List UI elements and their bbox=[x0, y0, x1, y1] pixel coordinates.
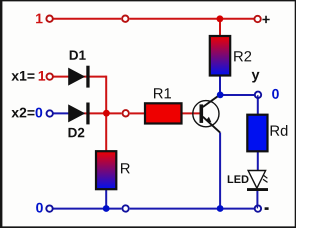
wire supply rail to R2 top bbox=[219, 19, 221, 37]
LED light ray 2 bbox=[263, 179, 268, 182]
junction dot top rail at R2 bbox=[217, 15, 224, 22]
resistor R bbox=[96, 151, 116, 189]
junction dot ground below R bbox=[103, 205, 110, 212]
wire bottom rail right segment bbox=[130, 208, 258, 210]
wire x1 row from terminal to corner bbox=[50, 76, 106, 78]
connector circle x2 row bbox=[123, 110, 129, 116]
LED cathode bar bbox=[247, 188, 268, 191]
wire x2 row blue from terminal to diode D2 bbox=[50, 112, 84, 114]
transistor Q1 circle bbox=[193, 101, 219, 127]
label x1= bbox=[11, 71, 34, 81]
tick inside minus terminal bbox=[256, 205, 258, 208]
transistor base bar bbox=[200, 104, 204, 123]
wire collector node to y terminal bbox=[220, 94, 254, 96]
resistor Rd bbox=[247, 115, 267, 152]
label 0 x2 value bbox=[36, 108, 43, 118]
wire top supply rail right segment bbox=[130, 18, 258, 20]
LED light ray 1 bbox=[263, 175, 267, 178]
label D1 bbox=[70, 51, 86, 60]
label 0 ground bbox=[36, 203, 43, 213]
terminal circle y bbox=[255, 92, 261, 98]
label x2= bbox=[11, 108, 34, 118]
terminal circle minus bbox=[255, 205, 261, 211]
connector circle top rail bbox=[122, 16, 128, 22]
junction dot ground below emitter bbox=[217, 205, 224, 212]
wire y terminal down to Rd top bbox=[257, 96, 259, 116]
diode D2 cathode bar bbox=[86, 103, 89, 125]
label D2 bbox=[69, 128, 85, 137]
wire x2 row red from diode D2 to node bbox=[84, 112, 122, 114]
label LED bbox=[228, 175, 249, 183]
label R bbox=[121, 163, 130, 173]
LED triangle bbox=[248, 171, 266, 189]
transistor emitter arrowhead bbox=[206, 117, 212, 123]
resistor R2 bbox=[210, 36, 230, 76]
label R1 bbox=[154, 88, 171, 98]
diode D1 triangle bbox=[68, 68, 85, 86]
connector circle bottom rail bbox=[122, 205, 128, 211]
wire R2 bottom to collector node bbox=[219, 76, 221, 96]
wire bottom rail left segment bbox=[50, 208, 122, 210]
resistor R1 bbox=[145, 103, 182, 123]
wire emitter down to ground rail bbox=[219, 133, 221, 209]
terminal circle x2 bbox=[47, 110, 53, 116]
terminal circle plus bbox=[254, 16, 260, 22]
terminal circle x1 bbox=[47, 73, 53, 79]
label 0 y value bbox=[272, 89, 279, 99]
wire Rd bottom to LED anode bbox=[257, 151, 259, 171]
label 1 x1 value bbox=[39, 71, 46, 81]
label minus bbox=[265, 207, 269, 210]
terminal circle bottom left bbox=[46, 205, 52, 211]
wire LED cathode to minus terminal bbox=[256, 190, 258, 209]
diode D1 cathode bar bbox=[86, 66, 89, 88]
transistor emitter line bbox=[203, 117, 220, 133]
wire vertical from D1 output down through x2 node to R top bbox=[105, 76, 107, 152]
transistor collector line bbox=[203, 95, 220, 107]
wire node to R1 bbox=[130, 112, 145, 114]
label R2 bbox=[234, 51, 251, 61]
label Rd bbox=[271, 125, 288, 136]
diode D2 triangle bbox=[68, 104, 85, 122]
label plus bbox=[262, 16, 269, 23]
tick inside y terminal bbox=[257, 95, 259, 98]
junction dot x2 node bbox=[103, 110, 110, 117]
label y bbox=[252, 72, 260, 83]
wire top supply rail left segment bbox=[50, 18, 121, 20]
junction dot collector node bbox=[217, 92, 224, 99]
wire R1 to transistor base bbox=[181, 112, 200, 114]
terminal circle top left bbox=[46, 16, 52, 22]
label 1 logic high at supply bbox=[36, 14, 43, 24]
wire R bottom to ground rail bbox=[105, 189, 107, 209]
